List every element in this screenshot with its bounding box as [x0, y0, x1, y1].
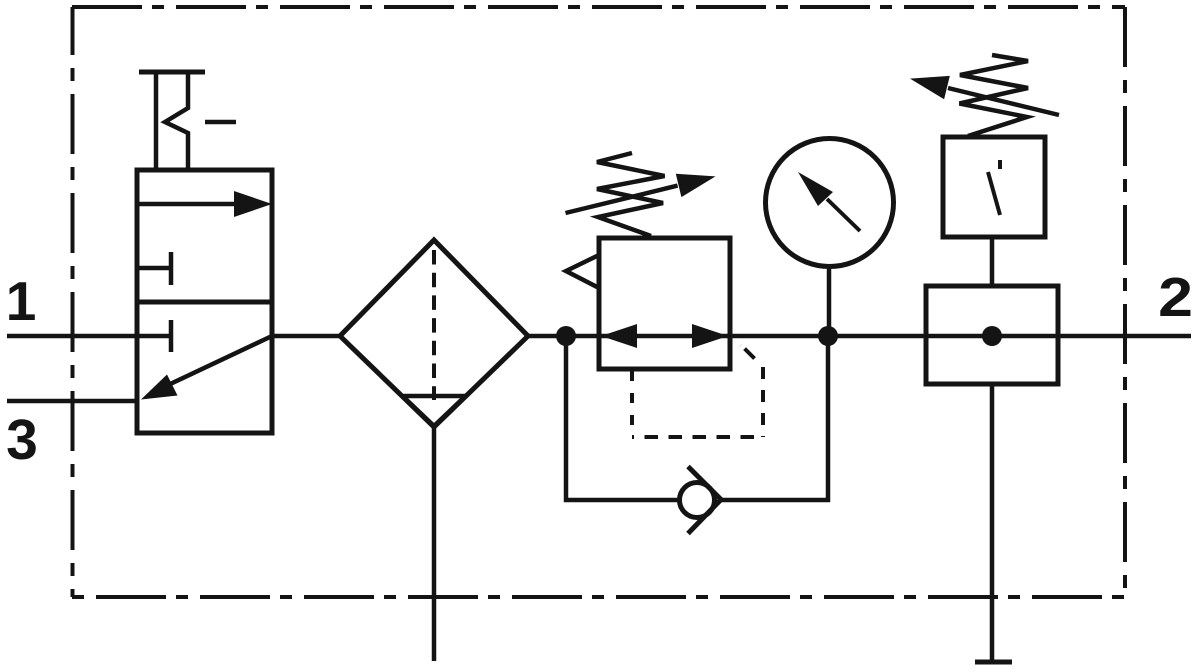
- valve V1 blocked port (bottom position): [137, 320, 171, 352]
- branch module body: [926, 286, 1058, 384]
- valve V1 blocked port (top position): [137, 252, 171, 285]
- valve V1 manual actuator (push-pull with detent): [139, 72, 236, 170]
- node junction J1 (bypass left): [556, 326, 576, 346]
- node junction J2 (gauge): [818, 326, 838, 346]
- pilot valve spring: [960, 55, 1029, 136]
- svg-text:1: 1: [6, 270, 37, 332]
- wire valve to filter: [272, 334, 340, 339]
- valve V1 exhaust path arrow (bottom position): [141, 336, 272, 400]
- svg-text:2: 2: [1158, 268, 1193, 329]
- wire port 1: [7, 334, 137, 339]
- regulator relief notch: [566, 255, 599, 288]
- bypass wire right: [719, 336, 828, 500]
- wire pilot valve to branch: [990, 237, 995, 286]
- gauge stem: [827, 266, 832, 336]
- enclosure border frame (dash-dot): [72, 7, 1125, 597]
- port 2 label: [1158, 268, 1193, 329]
- svg-text:3: 3: [6, 408, 38, 472]
- bypass wire left: [566, 336, 679, 500]
- wire regulator to gauge branch: [730, 334, 926, 339]
- exhaust port bar: [975, 660, 1012, 665]
- wire port 2: [1058, 334, 1191, 339]
- check valve CV1: [680, 467, 722, 534]
- filter drain line: [432, 427, 437, 661]
- branch exhaust line: [990, 384, 995, 662]
- wire through branch module: [926, 334, 1058, 339]
- regulator R1 body: [599, 238, 730, 369]
- regulator adjustment arrow: [566, 174, 716, 213]
- pilot valve U1 body: [943, 137, 1045, 237]
- regulator adjustable spring: [597, 153, 665, 236]
- wire filter to regulator: [528, 334, 599, 339]
- gauge needle: [798, 172, 860, 231]
- pilot valve adjustment arrow: [910, 76, 1059, 115]
- pressure gauge G1: [766, 139, 894, 267]
- regulator flow path with arrows: [599, 324, 730, 348]
- valve V1 body (3/2 on-off valve): [137, 170, 272, 433]
- filter F1 with water separator: [340, 240, 528, 427]
- node junction J3 (branch): [982, 326, 1002, 346]
- pilot valve switch mark: [988, 160, 1000, 215]
- filter element (dashed): [432, 250, 436, 400]
- valve V1 flow arrow (top position): [137, 191, 272, 217]
- regulator pilot line (dashed): [632, 345, 763, 437]
- wire port 3: [7, 399, 137, 404]
- filter separator triangle: [403, 396, 466, 426]
